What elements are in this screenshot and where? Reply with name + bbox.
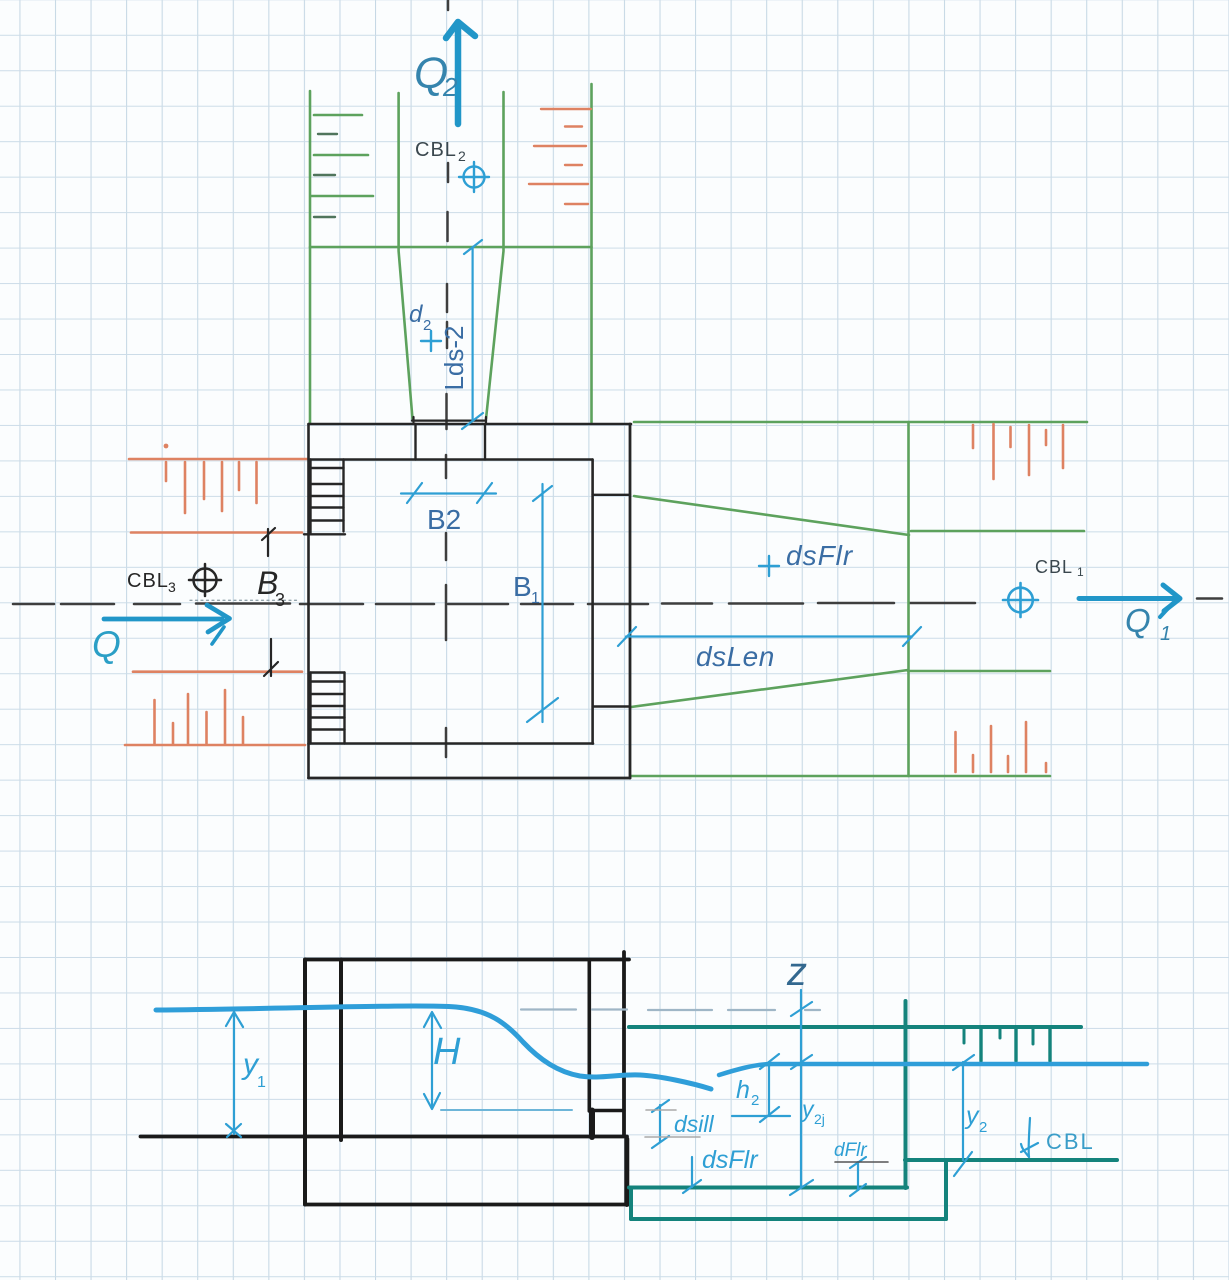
lower ladder (311, 673, 345, 744)
svg-text:h: h (736, 1076, 750, 1104)
dsFlr plan plus (759, 556, 779, 576)
upstream invert line (141, 1135, 628, 1139)
upper ladder (304, 460, 345, 535)
B2 dimension line (401, 483, 496, 503)
sill left thick edge (589, 1111, 595, 1138)
orange hatch downstream bottom bank (954, 732, 957, 772)
svg-text:3: 3 (275, 590, 285, 610)
dFlr underline (835, 1161, 888, 1163)
h2 dimension (732, 1054, 790, 1122)
svg-text:dsill: dsill (674, 1111, 715, 1137)
svg-text:2j: 2j (814, 1111, 825, 1127)
svg-text:2: 2 (458, 148, 466, 164)
top opening stubs above (412, 417, 414, 424)
upstream channel right inner wall (green) (486, 92, 504, 419)
teal step vertical (944, 1160, 948, 1219)
downstream teal top bank line (629, 1025, 1081, 1029)
y1 dimension (226, 1012, 243, 1137)
box outer bottom wall (309, 777, 631, 780)
svg-text:B2: B2 (427, 504, 461, 535)
svg-text:1: 1 (1077, 565, 1084, 579)
channel cross green line (310, 246, 592, 249)
upstream water surface (156, 1006, 711, 1089)
right culvert top edge (593, 494, 630, 496)
svg-text:dsFlr: dsFlr (702, 1146, 759, 1174)
Q2 arrow (446, 22, 475, 124)
top opening right jamb (484, 424, 486, 460)
upstream orange top toe line (131, 531, 302, 534)
orange hatch upper-left bank (164, 444, 169, 449)
box inner top wall (310, 458, 593, 460)
downstream channel green vertical (907, 422, 910, 776)
teal downstream invert (905, 1158, 1117, 1162)
svg-text:3: 3 (168, 579, 176, 595)
orange hatch downstream top bank (972, 425, 975, 448)
teal basin-floor left drop (629, 1188, 633, 1220)
svg-text:CBL: CBL (1035, 557, 1073, 577)
downstream upper toe line (911, 530, 1084, 533)
svg-text:B: B (513, 571, 532, 602)
upstream orange lower toe line (133, 670, 302, 673)
svg-text:1: 1 (1160, 623, 1171, 645)
profile outer-right wall lower thick (624, 1139, 629, 1205)
green hatch left bank (314, 114, 362, 117)
vertical dashed centerline (446, 0, 448, 757)
svg-text:1: 1 (531, 590, 540, 607)
horizontal dashed centerline (13, 599, 1222, 605)
CBL2 target symbol (459, 162, 489, 192)
profile inner-left wall (339, 960, 343, 1141)
B3 tick lower (264, 639, 278, 676)
svg-text:1: 1 (257, 1074, 266, 1091)
H dimension (424, 1012, 441, 1109)
svg-text:y: y (964, 1102, 980, 1130)
H reference line (crest level) (441, 1109, 572, 1111)
y2 dimension (953, 1055, 974, 1176)
d2 plus (421, 331, 441, 351)
svg-text:dFlr: dFlr (834, 1140, 867, 1161)
svg-text:dsLen: dsLen (696, 641, 775, 672)
orange hatch lower-left bank (153, 700, 156, 744)
downstream channel (right, green) top bank line (634, 421, 1087, 424)
upstream channel left bank toe (green wall, plan top) (309, 91, 312, 423)
upstream water level dashed (521, 1008, 820, 1011)
svg-text:CBL: CBL (1046, 1129, 1095, 1154)
box outer top wall (309, 423, 632, 426)
svg-text:CBL: CBL (127, 570, 169, 592)
box inner bottom wall (309, 742, 594, 745)
svg-text:y: y (800, 1096, 815, 1122)
profile outer-right wall upper (622, 952, 626, 1136)
svg-text:dsFlr: dsFlr (786, 540, 854, 571)
dsill dimension (652, 1100, 669, 1148)
upstream channel right bank (green wall) (590, 84, 593, 422)
downstream bottom bank line (631, 775, 1051, 778)
svg-text:d: d (409, 301, 423, 328)
upstream channel left inner wall (green) (399, 93, 413, 419)
top opening left jamb (414, 424, 416, 460)
right culvert bottom edge (593, 705, 630, 707)
dFlr tick (850, 1157, 866, 1196)
teal end wall vertical (904, 1001, 908, 1188)
svg-text:Q: Q (92, 624, 121, 665)
downstream upper transition wall (634, 496, 909, 535)
downstream water surface (719, 1064, 1147, 1075)
box outer left wall (307, 424, 310, 778)
svg-text:Lds-2: Lds-2 (439, 325, 469, 390)
dsFlr tick (683, 1157, 701, 1193)
L_ds-2 dimension line (462, 240, 483, 429)
svg-text:2: 2 (751, 1092, 759, 1109)
CBL1 target symbol (1003, 583, 1038, 617)
z dimension line (790, 990, 813, 1195)
downstream lower toe line (908, 670, 1050, 673)
upstream (left) orange bank top line (129, 458, 308, 461)
box top lip double line (412, 420, 486, 422)
svg-text:2: 2 (423, 317, 431, 334)
dsLen dimension line (618, 627, 921, 646)
svg-text:Q: Q (1125, 602, 1151, 639)
downstream lower transition wall (631, 670, 908, 707)
profile box top (305, 958, 629, 962)
box outer right wall (629, 424, 632, 778)
CBL tick bottom (1021, 1118, 1038, 1157)
profile box bottom (305, 1203, 629, 1207)
svg-text:CBL: CBL (415, 139, 457, 161)
teal bank hatch ticks (963, 1028, 966, 1043)
svg-text:z: z (786, 950, 807, 994)
orange hatch right bank of top channel (541, 108, 591, 110)
upstream orange bottom line (125, 744, 305, 747)
dsill reference dashes (646, 1109, 676, 1111)
Q1 arrow (1079, 585, 1180, 617)
svg-text:2: 2 (979, 1119, 987, 1136)
CBL3 target symbol (black) (189, 564, 221, 596)
teal basin floor (629, 1186, 907, 1190)
sill crest (589, 1109, 624, 1112)
profile inner-right wall (587, 960, 591, 1112)
Q arrow (left) (104, 605, 230, 644)
B3 tick upper (262, 528, 275, 556)
svg-text:2: 2 (442, 72, 458, 102)
svg-text:H: H (433, 1031, 461, 1073)
profile outer-left wall (303, 960, 307, 1205)
box inner right wall (591, 460, 594, 744)
teal under-floor bottom line (631, 1217, 946, 1221)
B1 dimension line (527, 484, 558, 722)
